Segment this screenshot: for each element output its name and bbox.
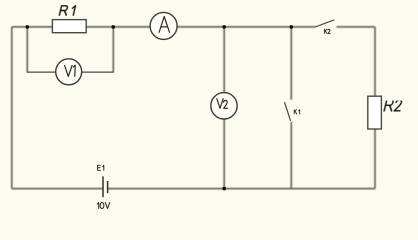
voltmeter V1 xyxy=(56,59,82,85)
battery value label 10V xyxy=(97,203,110,209)
wire left vertical xyxy=(11,27,13,189)
wire V1 loop left vertical xyxy=(26,27,28,72)
wire K2 right contact to top-right corner xyxy=(337,26,376,28)
voltmeter V2 xyxy=(211,93,237,119)
ammeter A xyxy=(150,12,177,39)
resistor R1 xyxy=(52,20,86,33)
wire K1 lower contact down to bottom wire xyxy=(290,122,292,189)
label R2 xyxy=(384,100,402,111)
wire bottom-left (left corner to battery) xyxy=(12,188,103,190)
label K2 xyxy=(324,29,330,33)
node E junction dot xyxy=(222,187,226,191)
wire right vertical below R2 xyxy=(374,129,376,189)
wire top-left horizontal (left edge to R1) xyxy=(12,26,53,28)
wire R1 to ammeter xyxy=(86,26,150,28)
battery E1 short plate xyxy=(107,181,109,193)
switch K2 xyxy=(315,20,334,27)
resistor R2 xyxy=(368,96,382,129)
wire ammeter to K2 left contact xyxy=(177,26,315,28)
wire V1 loop right vertical xyxy=(112,27,114,72)
switch K1 xyxy=(285,102,291,121)
wire bottom (battery to right corner) xyxy=(108,188,375,190)
wire right vertical above R2 xyxy=(374,27,376,96)
node D junction dot xyxy=(290,25,294,29)
wire V1 right stub xyxy=(82,71,114,73)
wire node C down to V2 xyxy=(223,27,225,93)
label R1 xyxy=(59,6,75,15)
battery label E1 xyxy=(98,165,104,170)
label V2 xyxy=(217,99,228,109)
node B junction dot xyxy=(111,25,115,29)
node A junction dot xyxy=(26,25,30,29)
wire node D down to K1 upper contact xyxy=(290,27,292,100)
wire V1 left stub xyxy=(27,71,56,73)
node C junction dot xyxy=(222,25,226,29)
battery E1 long plate xyxy=(102,176,104,197)
wire V2 down to bottom node E xyxy=(223,119,225,189)
label A xyxy=(159,17,169,33)
label V1 xyxy=(65,65,76,76)
label K1 xyxy=(294,110,300,114)
